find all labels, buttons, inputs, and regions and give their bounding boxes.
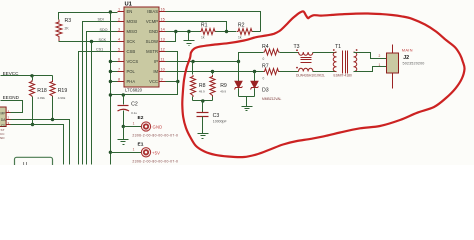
svg-text:MMBZ12VAL: MMBZ12VAL (262, 97, 282, 101)
svg-text:4: 4 (118, 38, 120, 42)
resistor R7 (262, 64, 280, 81)
U1 right pin numbers (161, 8, 165, 82)
svg-text:7: 7 (118, 68, 120, 72)
ground below E2 junction (118, 127, 129, 145)
wire R7 to T3 bottom (280, 71, 299, 73)
svg-text:EEGND: EEGND (3, 95, 20, 100)
wire VCC down and left to C2/+5V (111, 82, 178, 95)
svg-text:1: 1 (133, 148, 135, 152)
svg-text:10000pF: 10000pF (213, 120, 227, 124)
U1 right pin names (146, 9, 159, 84)
svg-text:2306-2-00-80-00-00-07-0: 2306-2-00-80-00-00-07-0 (132, 134, 178, 138)
wire R1 to R2 segment (216, 31, 237, 33)
test point E2 (132, 115, 178, 138)
svg-text:3: 3 (118, 28, 120, 32)
wire EN/+5V vertical (110, 13, 112, 165)
svg-text:4.99k: 4.99k (58, 96, 66, 100)
svg-text:1: 1 (379, 63, 381, 67)
node IM to D3 junction (253, 70, 256, 73)
wire T3 to T1 bottom (313, 71, 337, 73)
resistor R19 (50, 76, 67, 120)
svg-text:C3: C3 (213, 113, 220, 119)
wire SCK vertical to bottom (91, 42, 93, 165)
left IC pin numbers (8, 109, 10, 125)
wire IM row pin10 (166, 71, 264, 73)
svg-text:IBIAS: IBIAS (147, 9, 158, 14)
svg-text:10: 10 (161, 68, 165, 72)
wire VCCS jumper pin6 (111, 61, 118, 63)
svg-text:E2: E2 (138, 115, 144, 121)
svg-text:0.1u: 0.1u (131, 111, 137, 115)
wire VCMP pin15 to R1-R2 junction (166, 22, 227, 32)
wire EN net from R3 top to U1 pin1 (59, 13, 118, 20)
svg-text:J2: J2 (403, 55, 409, 61)
ground at U1 GND pin (184, 32, 195, 46)
svg-text:VCMP: VCMP (146, 19, 158, 24)
U1 left pin names (127, 9, 139, 84)
svg-text:VCCS: VCCS (127, 59, 139, 64)
transformer T3 common-mode choke (294, 44, 326, 77)
wire CS1 net (79, 52, 118, 165)
svg-text:R19: R19 (58, 88, 68, 94)
U1 left pin stubs 1-8 (118, 12, 125, 82)
wire T3 to T1 top (313, 52, 337, 54)
svg-text:0: 0 (263, 77, 265, 81)
svg-text:2: 2 (118, 18, 120, 22)
wire GND row pin14 (166, 31, 201, 33)
svg-text:E1: E1 (138, 141, 144, 147)
left IC pin stubs (7, 113, 11, 125)
svg-text:VCC: VCC (149, 79, 158, 84)
svg-text:R18: R18 (37, 88, 47, 94)
svg-text:DA: DA (1, 118, 6, 122)
svg-text:5023520200: 5023520200 (403, 61, 425, 65)
node C2 tap junction (122, 93, 125, 96)
node R19 bottom junction (51, 118, 54, 121)
connector J2 (387, 45, 425, 89)
node C3 tap (201, 99, 204, 102)
svg-text:14: 14 (161, 28, 165, 32)
resistor R3 (56, 18, 71, 42)
U1 right pin stubs 9-16 (159, 12, 166, 82)
svg-text:T3: T3 (294, 44, 300, 50)
resistor R4 (262, 44, 280, 61)
svg-text:6: 6 (118, 58, 120, 62)
svg-text:MISO: MISO (127, 29, 138, 34)
svg-text:IM: IM (153, 69, 158, 74)
wire PHA jumper pin8 (111, 81, 118, 83)
svg-text:GND: GND (153, 125, 163, 130)
IC U1 LTC6820 body (124, 2, 159, 93)
svg-text:2K: 2K (65, 27, 70, 31)
svg-text:15: 15 (161, 18, 165, 22)
node R9 tap (211, 70, 214, 73)
ground below D3 (242, 97, 253, 111)
svg-text:1k: 1k (238, 36, 242, 40)
svg-text:T1: T1 (335, 44, 341, 50)
node VCMP junction (225, 30, 228, 33)
svg-text:SDI: SDI (98, 18, 104, 22)
svg-text:GND: GND (149, 29, 158, 34)
node R18 bottom junction on low wire (31, 123, 34, 126)
svg-text:POL: POL (127, 69, 136, 74)
wire MSTR pin12 down to VCC (166, 52, 178, 82)
svg-text:MP: MP (1, 111, 7, 115)
resistor R8 (190, 62, 205, 101)
wire SLOW pin13 up to GND row (166, 32, 176, 42)
wire junction to E1 (111, 152, 142, 154)
resistor R1 (200, 23, 216, 40)
svg-text:R8: R8 (199, 83, 206, 89)
node SCK junction (90, 40, 93, 43)
svg-text:SCK: SCK (127, 39, 136, 44)
svg-text:R1: R1 (201, 23, 208, 29)
svg-text:SCK: SCK (99, 38, 107, 42)
svg-text:R3: R3 (65, 18, 72, 24)
svg-text:R4: R4 (262, 44, 269, 50)
resistor R9 (210, 72, 227, 101)
wire VCC pin9 (166, 81, 178, 83)
svg-text:16: 16 (161, 8, 165, 12)
svg-text:MSTR: MSTR (146, 49, 158, 54)
svg-text:MOSI: MOSI (127, 19, 138, 24)
svg-text:49.9: 49.9 (220, 89, 226, 93)
wire T1 to J2 pin2 (354, 53, 387, 59)
svg-text:C2: C2 (131, 101, 138, 107)
svg-text:+5V: +5V (152, 150, 160, 155)
svg-text:LTC6820: LTC6820 (125, 88, 143, 93)
wire R3 bottom to U1 pin4 SCK row (59, 41, 118, 43)
svg-text:ESMIT-4180: ESMIT-4180 (334, 73, 352, 77)
svg-text:CSB: CSB (127, 49, 136, 54)
node IP to R4/D3 junction (237, 60, 240, 63)
svg-text:CS1: CS1 (96, 48, 103, 52)
svg-text:PHA: PHA (127, 79, 136, 84)
node SLOW junction (174, 30, 177, 33)
svg-text:1: 1 (118, 8, 120, 12)
node VCC to +5V junction (109, 93, 112, 96)
capacitor C2 (118, 95, 138, 127)
svg-text:5: 5 (118, 48, 120, 52)
wire SDO net (87, 32, 118, 165)
wire SDI net (83, 22, 118, 165)
svg-text:49.9: 49.9 (199, 89, 205, 93)
svg-text:IP: IP (154, 59, 158, 64)
svg-text:R7: R7 (262, 64, 269, 70)
node EN junction at x=110.4 (109, 10, 112, 13)
node R18 top junction (30, 74, 33, 77)
ground below C3 (198, 134, 209, 139)
wire R4 to T3 top (280, 52, 299, 54)
svg-text:2: 2 (379, 54, 381, 58)
svg-text:MAIN: MAIN (402, 47, 413, 52)
node R8 tap (191, 60, 194, 63)
svg-text:SLOW: SLOW (146, 39, 158, 44)
wire junction to E2 (124, 126, 142, 128)
module box U bottom left (15, 157, 53, 169)
svg-text:R9: R9 (220, 83, 227, 89)
wire IP row pin11 (166, 61, 239, 63)
node C2/E2/gnd junction (122, 125, 125, 128)
svg-text:DLW43SH101XK2L: DLW43SH101XK2L (296, 73, 325, 77)
node ground tap junction (187, 30, 190, 33)
connector U4 left cut-off IC (0, 107, 6, 140)
resistor R18 (29, 76, 47, 125)
wire left IC mid pin to bottom (through R19 junction) (11, 120, 70, 165)
svg-text:1k: 1k (201, 36, 205, 40)
svg-text:12: 12 (161, 48, 165, 52)
resistor R2 (237, 23, 253, 40)
svg-text:U: U (23, 163, 27, 166)
wire IBIAS pin16 to R2 right (166, 12, 261, 32)
diode D3 dual zener (235, 62, 282, 101)
svg-text:SDO: SDO (100, 28, 108, 32)
svg-text:D3: D3 (262, 88, 269, 94)
annotation red loop (182, 11, 464, 157)
wire R8/R9 bottoms (193, 100, 213, 102)
wire left IC low pin to bottom (through R18 junction) (11, 125, 64, 165)
node PHA junction (109, 80, 112, 83)
svg-text:4.99k: 4.99k (37, 96, 45, 100)
svg-text:ND: ND (0, 136, 5, 140)
svg-text:EN: EN (127, 9, 133, 14)
wire EEGND to left IC top pin (1, 101, 23, 113)
wire POL jumper pin7 (111, 71, 118, 73)
svg-text:U1: U1 (125, 2, 133, 8)
svg-text:9: 9 (161, 78, 163, 82)
transformer T1 (333, 44, 358, 77)
svg-text:R2: R2 (238, 23, 245, 29)
svg-text:0: 0 (263, 57, 265, 61)
svg-text:8: 8 (118, 78, 120, 82)
svg-text:1: 1 (133, 122, 135, 126)
U1 left pin numbers (118, 8, 120, 82)
svg-text:13: 13 (161, 38, 165, 42)
svg-text:11: 11 (161, 58, 165, 62)
svg-text:CL: CL (1, 123, 5, 127)
wire EEVCC rail (1, 75, 53, 77)
node VCCS junction (109, 60, 112, 63)
wire IP jog up to R4 row (239, 53, 264, 62)
node POL junction (109, 70, 112, 73)
wire R2 to corner segment (253, 31, 261, 33)
node VCC junction (176, 80, 179, 83)
svg-text:2306-2-00-80-00-00-07-0: 2306-2-00-80-00-00-07-0 (132, 159, 178, 163)
node E1 junction (109, 151, 112, 154)
test point E1 (132, 141, 178, 163)
capacitor C3 (197, 101, 227, 134)
wire T1 to J2 pin1 (354, 67, 387, 72)
